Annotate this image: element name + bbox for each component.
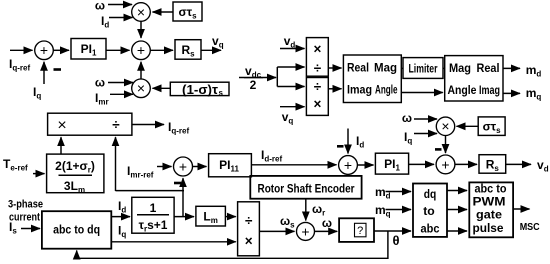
svg-text:Rs: Rs [486,158,500,174]
svg-text:abc: abc [421,222,440,236]
svg-text:2(1+σr): 2(1+σr) [55,159,95,175]
svg-text:ω: ω [322,216,332,230]
svg-text:vq: vq [212,34,224,50]
svg-text:Imag: Imag [347,83,372,97]
svg-text:abc to: abc to [475,182,507,196]
svg-text:PI11: PI11 [219,158,239,174]
svg-text:÷: ÷ [245,213,253,228]
svg-text:+: + [179,158,187,174]
svg-text:Angle: Angle [375,83,398,97]
svg-text:3-phase: 3-phase [8,199,43,211]
svg-text:+: + [301,223,309,239]
svg-text:s: s [219,89,224,98]
svg-text:mq: mq [526,86,542,102]
svg-text:Id: Id [118,199,126,215]
svg-text:ω: ω [95,0,105,13]
svg-text:Iq: Iq [404,130,412,146]
svg-text:+: + [137,42,145,58]
svg-text:Id: Id [356,134,364,150]
svg-text:Lm: Lm [203,210,217,226]
svg-text:gate: gate [476,208,502,222]
svg-text:Id: Id [101,14,109,30]
svg-text:Iq: Iq [33,85,41,101]
svg-text:vd: vd [284,34,296,50]
svg-text:Angle: Angle [448,83,477,97]
svg-text:Rs: Rs [181,43,195,59]
svg-text:MSC: MSC [520,221,540,233]
svg-text:στs: στs [483,120,502,136]
svg-text:PWM: PWM [473,195,506,209]
svg-text:×: × [441,118,449,134]
svg-text:Imag: Imag [479,83,500,97]
svg-text:abc to dq: abc to dq [53,223,100,237]
svg-text:+: + [441,156,449,172]
svg-text:Real: Real [477,61,500,75]
svg-text:Imr-ref: Imr-ref [127,164,154,180]
svg-text:PI1: PI1 [81,42,97,58]
svg-text:mq: mq [375,203,391,219]
svg-text:vq: vq [282,110,294,126]
svg-text:×: × [313,41,321,56]
svg-text:ω: ω [95,76,105,90]
svg-text:PI1: PI1 [384,157,400,173]
svg-text:στs: στs [178,5,197,21]
svg-text:Limiter: Limiter [409,62,438,76]
svg-text:3Lm: 3Lm [64,179,85,195]
svg-text:?: ? [357,225,363,237]
svg-text:ω: ω [402,111,412,125]
svg-text:Rotor Shaft Encoder: Rotor Shaft Encoder [258,182,355,196]
svg-text:Iq: Iq [118,224,126,240]
svg-text:vd: vd [537,158,549,174]
svg-text:×: × [57,117,66,134]
svg-text:md: md [526,63,542,79]
svg-text:Iq-ref: Iq-ref [168,120,189,136]
svg-text:(1-σ)τ: (1-σ)τ [182,82,218,97]
svg-text:Real: Real [347,61,369,75]
svg-text:÷: ÷ [314,79,322,94]
svg-text:×: × [137,80,145,96]
svg-text:θ: θ [393,233,400,248]
svg-text:dq: dq [424,187,437,201]
svg-text:÷: ÷ [112,117,120,132]
svg-text:ωs: ωs [280,214,295,230]
svg-text:+: + [40,42,48,58]
svg-text:to: to [423,204,435,218]
svg-text:Id-ref: Id-ref [261,148,282,164]
svg-text:Iq-ref: Iq-ref [9,57,30,73]
svg-text:Imr: Imr [95,91,109,107]
svg-text:τrs+1: τrs+1 [139,218,168,234]
svg-text:Mag: Mag [374,61,397,75]
svg-text:Mag: Mag [449,61,471,75]
svg-text:+: + [344,157,352,173]
svg-text:md: md [375,185,391,201]
svg-text:pulse: pulse [473,221,504,235]
svg-text:1: 1 [150,201,157,215]
svg-text:×: × [313,97,321,112]
svg-text:current: current [9,212,40,224]
svg-text:Te-ref: Te-ref [3,157,28,173]
svg-text:÷: ÷ [314,61,322,76]
svg-text:×: × [245,234,253,249]
svg-text:2: 2 [250,78,257,92]
svg-text:×: × [137,4,145,20]
